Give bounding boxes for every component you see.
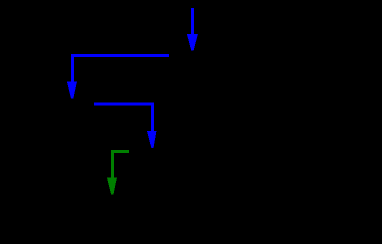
- wire: arrow A4 horizontal segment (green): [111, 150, 129, 153]
- wire: arrow A3 horizontal segment: [94, 103, 154, 106]
- wire: arrow A3 vertical segment: [151, 103, 154, 133]
- arrowhead A1 (blue, pointing down): [187, 34, 198, 50]
- arrowhead A4 (green, pointing down): [107, 178, 117, 195]
- wire: arrow A2 vertical segment: [71, 54, 74, 83]
- wire: arrow A2 horizontal segment: [71, 54, 169, 57]
- arrowhead A2 (blue, pointing down): [67, 82, 77, 99]
- wire: arrow A4 vertical segment (green): [111, 150, 114, 179]
- wire: arrow A1 shaft (vertical, top center): [191, 8, 194, 36]
- arrowhead A3 (blue, pointing down): [147, 131, 157, 148]
